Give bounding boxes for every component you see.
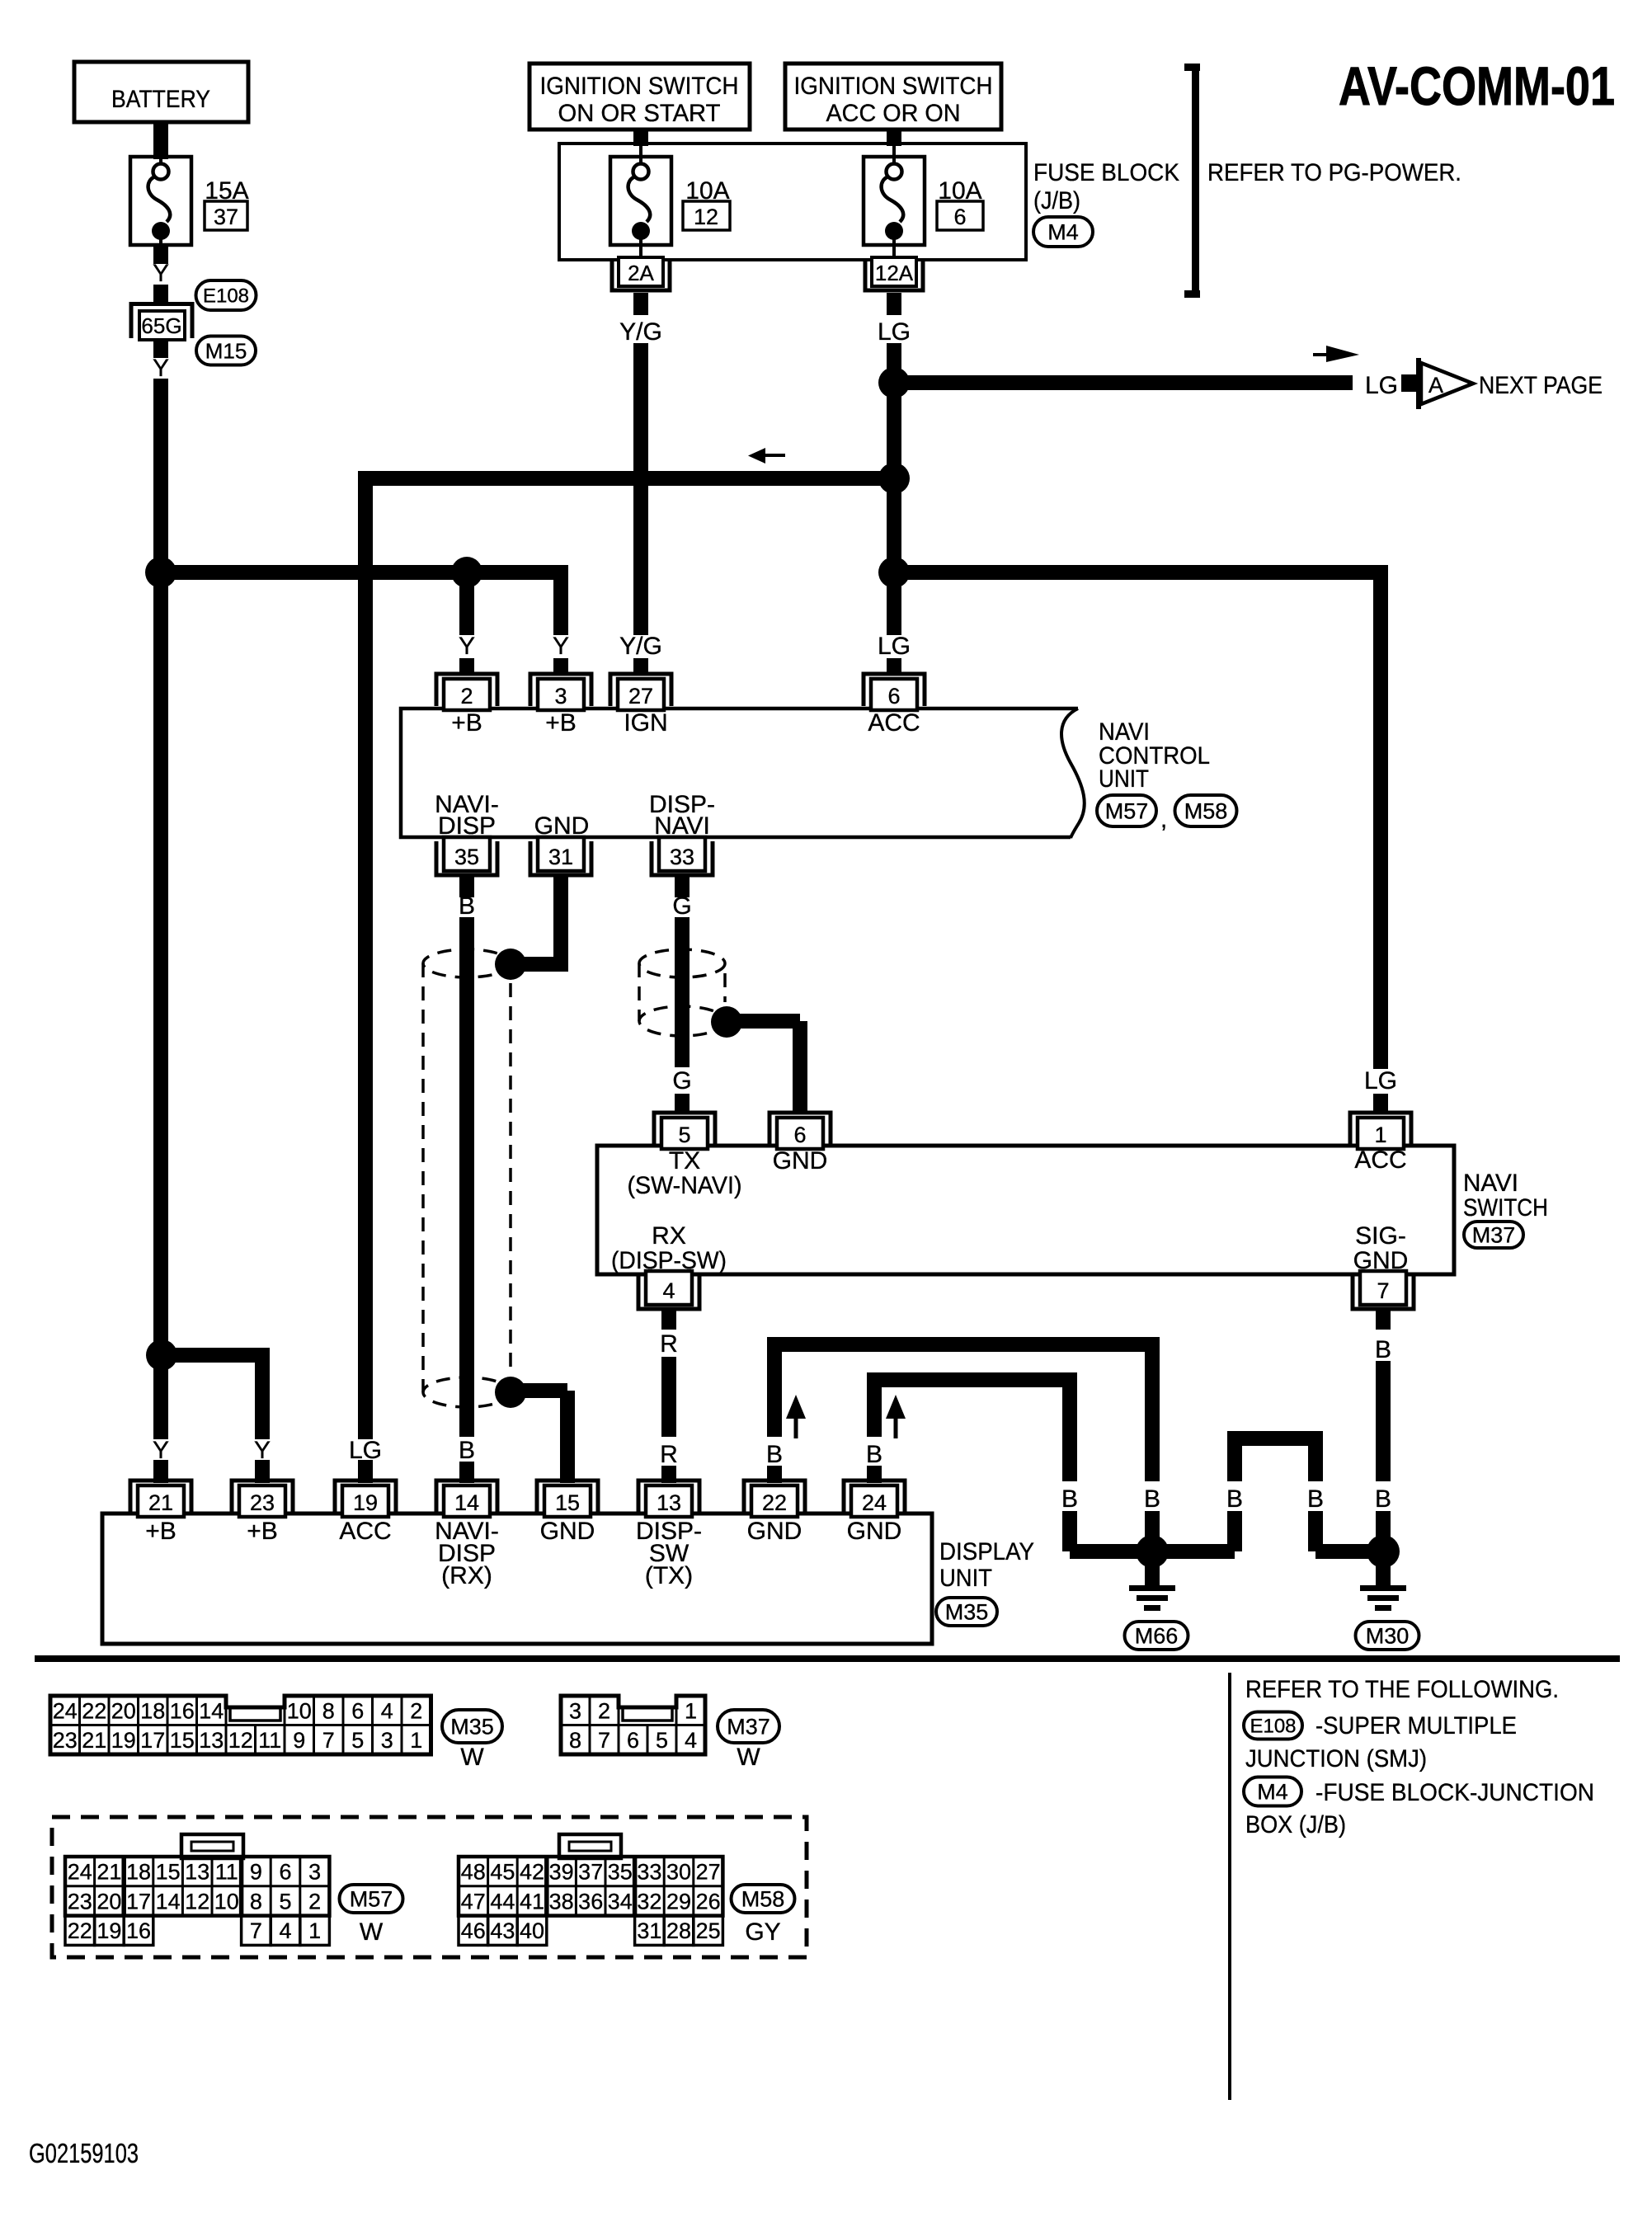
svg-text:11: 11 <box>215 1860 238 1885</box>
svg-text:6: 6 <box>279 1860 291 1885</box>
svg-text:37: 37 <box>578 1860 603 1885</box>
svg-text:3: 3 <box>554 684 567 708</box>
svg-text:-FUSE BLOCK-JUNCTION: -FUSE BLOCK-JUNCTION <box>1315 1779 1594 1806</box>
svg-text:W: W <box>360 1918 384 1946</box>
svg-text:13: 13 <box>199 1728 224 1753</box>
svg-text:DISPLAY: DISPLAY <box>939 1538 1034 1565</box>
svg-text:27: 27 <box>696 1860 721 1885</box>
svg-text:5: 5 <box>678 1123 690 1147</box>
svg-text:E108: E108 <box>1250 1716 1296 1738</box>
svg-text:28: 28 <box>666 1918 691 1943</box>
svg-text:Y: Y <box>153 1437 169 1464</box>
svg-text:3: 3 <box>569 1699 581 1724</box>
svg-text:12A: 12A <box>875 261 914 285</box>
svg-text:6: 6 <box>887 684 900 708</box>
svg-text:2: 2 <box>460 684 473 708</box>
svg-text:4: 4 <box>685 1728 697 1753</box>
svg-text:34: 34 <box>608 1889 633 1914</box>
svg-text:R: R <box>660 1330 678 1358</box>
svg-text:UNIT: UNIT <box>939 1565 992 1592</box>
svg-text:,: , <box>1160 806 1167 833</box>
svg-text:B: B <box>459 1437 475 1464</box>
svg-text:15: 15 <box>170 1728 195 1753</box>
svg-text:46: 46 <box>461 1918 486 1943</box>
svg-text:44: 44 <box>490 1889 515 1914</box>
svg-text:19: 19 <box>111 1728 136 1753</box>
svg-text:7: 7 <box>1377 1278 1389 1303</box>
svg-text:B: B <box>866 1441 882 1468</box>
svg-text:27: 27 <box>628 684 653 708</box>
svg-text:21: 21 <box>96 1860 121 1885</box>
svg-text:+B: +B <box>545 709 577 737</box>
svg-text:IGN: IGN <box>624 709 667 737</box>
svg-text:2: 2 <box>410 1699 422 1724</box>
svg-text:30: 30 <box>666 1860 691 1885</box>
svg-text:12: 12 <box>228 1728 253 1753</box>
svg-text:10: 10 <box>214 1889 239 1914</box>
svg-text:UNIT: UNIT <box>1099 765 1149 793</box>
svg-text:31: 31 <box>637 1918 661 1943</box>
svg-text:3: 3 <box>381 1728 393 1753</box>
svg-text:2A: 2A <box>628 261 654 285</box>
svg-text:39: 39 <box>549 1860 574 1885</box>
svg-text:47: 47 <box>461 1889 486 1914</box>
svg-text:+B: +B <box>451 709 482 737</box>
svg-text:REFER TO THE FOLLOWING.: REFER TO THE FOLLOWING. <box>1245 1676 1559 1703</box>
svg-text:LG: LG <box>349 1437 382 1464</box>
svg-text:B: B <box>1307 1485 1324 1513</box>
svg-text:B: B <box>766 1441 783 1468</box>
svg-text:5: 5 <box>351 1728 364 1753</box>
svg-text:GND: GND <box>747 1518 802 1545</box>
svg-text:M35: M35 <box>450 1715 494 1739</box>
svg-text:LG: LG <box>878 318 911 346</box>
svg-text:3: 3 <box>308 1860 321 1885</box>
svg-text:M57: M57 <box>350 1887 393 1912</box>
svg-text:8: 8 <box>250 1889 262 1914</box>
svg-text:Y: Y <box>153 355 169 382</box>
svg-text:29: 29 <box>666 1889 691 1914</box>
svg-text:26: 26 <box>696 1889 721 1914</box>
svg-text:LG: LG <box>1365 372 1398 399</box>
svg-text:12: 12 <box>694 205 718 229</box>
svg-text:4: 4 <box>381 1699 393 1724</box>
svg-text:M37: M37 <box>727 1715 770 1739</box>
svg-text:M66: M66 <box>1135 1624 1179 1649</box>
svg-text:13: 13 <box>657 1490 681 1515</box>
svg-text:31: 31 <box>548 845 573 869</box>
svg-text:19: 19 <box>353 1490 378 1515</box>
svg-text:18: 18 <box>140 1699 165 1724</box>
svg-text:+B: +B <box>247 1518 278 1545</box>
svg-text:G: G <box>672 892 691 920</box>
svg-text:5: 5 <box>279 1889 291 1914</box>
svg-text:LG: LG <box>1364 1067 1397 1095</box>
svg-text:(J/B): (J/B) <box>1033 187 1080 214</box>
svg-text:41: 41 <box>520 1889 544 1914</box>
svg-text:36: 36 <box>578 1889 603 1914</box>
svg-text:M35: M35 <box>945 1600 989 1625</box>
svg-text:9: 9 <box>250 1860 262 1885</box>
svg-text:ON OR START: ON OR START <box>558 100 721 127</box>
svg-text:M37: M37 <box>1472 1223 1516 1248</box>
svg-text:23: 23 <box>68 1889 92 1914</box>
svg-text:(RX): (RX) <box>441 1562 492 1589</box>
svg-text:14: 14 <box>199 1699 224 1724</box>
svg-text:+B: +B <box>145 1518 176 1545</box>
svg-text:(TX): (TX) <box>645 1562 693 1589</box>
svg-text:22: 22 <box>68 1918 92 1943</box>
svg-text:1: 1 <box>308 1918 321 1943</box>
svg-text:B: B <box>1061 1485 1078 1513</box>
svg-text:NAVI: NAVI <box>1463 1170 1518 1197</box>
svg-text:21: 21 <box>82 1728 106 1753</box>
svg-text:LG: LG <box>878 633 911 660</box>
svg-text:15: 15 <box>156 1860 181 1885</box>
svg-text:BOX (J/B): BOX (J/B) <box>1245 1811 1346 1838</box>
svg-text:6: 6 <box>627 1728 639 1753</box>
svg-text:6: 6 <box>793 1123 806 1147</box>
svg-text:ACC OR ON: ACC OR ON <box>826 100 961 127</box>
svg-text:(SW-NAVI): (SW-NAVI) <box>628 1172 742 1199</box>
svg-text:45: 45 <box>490 1860 515 1885</box>
svg-text:Y: Y <box>553 633 569 660</box>
svg-text:4: 4 <box>279 1918 291 1943</box>
svg-text:B: B <box>459 892 475 920</box>
svg-text:E108: E108 <box>203 285 249 308</box>
svg-text:5: 5 <box>656 1728 668 1753</box>
svg-text:65G: 65G <box>141 313 181 338</box>
svg-text:A: A <box>1428 373 1443 398</box>
svg-text:ACC: ACC <box>1354 1146 1406 1174</box>
svg-text:7: 7 <box>250 1918 262 1943</box>
svg-text:B: B <box>1226 1485 1243 1513</box>
svg-text:W: W <box>460 1744 484 1771</box>
svg-text:4: 4 <box>662 1278 675 1303</box>
svg-text:GND: GND <box>847 1518 902 1545</box>
svg-text:18: 18 <box>126 1860 151 1885</box>
svg-text:24: 24 <box>68 1860 92 1885</box>
svg-text:GY: GY <box>745 1918 780 1946</box>
svg-text:14: 14 <box>156 1889 181 1914</box>
svg-text:W: W <box>737 1744 760 1771</box>
svg-text:2: 2 <box>598 1699 610 1724</box>
svg-text:B: B <box>1144 1485 1160 1513</box>
svg-text:G02159103: G02159103 <box>29 2138 139 2168</box>
svg-text:42: 42 <box>520 1860 544 1885</box>
svg-text:13: 13 <box>185 1860 209 1885</box>
svg-text:M4: M4 <box>1047 220 1079 245</box>
svg-text:35: 35 <box>608 1860 633 1885</box>
svg-text:RX: RX <box>652 1222 686 1250</box>
svg-text:ACC: ACC <box>868 709 920 737</box>
svg-text:11: 11 <box>258 1728 281 1753</box>
svg-text:20: 20 <box>111 1699 136 1724</box>
svg-text:8: 8 <box>322 1699 335 1724</box>
svg-text:SWITCH: SWITCH <box>1463 1194 1548 1222</box>
svg-text:37: 37 <box>214 205 238 229</box>
svg-text:TX: TX <box>669 1147 700 1175</box>
svg-text:M58: M58 <box>741 1887 785 1912</box>
svg-text:33: 33 <box>670 845 694 869</box>
svg-text:IGNITION SWITCH: IGNITION SWITCH <box>540 73 739 100</box>
svg-text:8: 8 <box>569 1728 581 1753</box>
svg-text:2: 2 <box>308 1889 321 1914</box>
svg-text:22: 22 <box>82 1699 106 1724</box>
svg-text:R: R <box>660 1441 678 1468</box>
svg-text:Y: Y <box>153 260 169 287</box>
svg-text:M4: M4 <box>1257 1780 1288 1805</box>
svg-text:33: 33 <box>637 1860 661 1885</box>
svg-text:23: 23 <box>250 1490 275 1515</box>
svg-text:20: 20 <box>96 1889 121 1914</box>
svg-text:22: 22 <box>762 1490 787 1515</box>
svg-text:GND: GND <box>773 1147 828 1175</box>
svg-text:19: 19 <box>96 1918 121 1943</box>
svg-text:9: 9 <box>293 1728 305 1753</box>
svg-text:35: 35 <box>454 845 479 869</box>
svg-text:38: 38 <box>549 1889 574 1914</box>
svg-text:40: 40 <box>520 1918 544 1943</box>
svg-text:7: 7 <box>322 1728 335 1753</box>
svg-text:FUSE BLOCK: FUSE BLOCK <box>1033 159 1179 186</box>
svg-text:M15: M15 <box>205 338 247 363</box>
svg-text:1: 1 <box>1374 1123 1386 1147</box>
svg-text:B: B <box>1375 1485 1391 1513</box>
svg-text:6: 6 <box>953 205 966 229</box>
svg-text:B: B <box>1375 1336 1391 1363</box>
svg-text:Y/G: Y/G <box>619 318 662 346</box>
svg-text:17: 17 <box>126 1889 151 1914</box>
svg-text:12: 12 <box>185 1889 209 1914</box>
svg-text:NEXT PAGE: NEXT PAGE <box>1479 372 1603 399</box>
svg-text:48: 48 <box>461 1860 486 1885</box>
svg-text:16: 16 <box>170 1699 195 1724</box>
svg-text:BATTERY: BATTERY <box>111 86 210 113</box>
svg-text:ACC: ACC <box>339 1518 391 1545</box>
svg-text:Y: Y <box>459 633 475 660</box>
svg-text:REFER TO PG-POWER.: REFER TO PG-POWER. <box>1207 159 1461 186</box>
svg-text:SIG-: SIG- <box>1355 1222 1406 1250</box>
svg-text:-SUPER MULTIPLE: -SUPER MULTIPLE <box>1315 1712 1517 1739</box>
svg-text:M58: M58 <box>1184 799 1228 824</box>
svg-text:10: 10 <box>287 1699 312 1724</box>
svg-text:AV-COMM-01: AV-COMM-01 <box>1339 55 1615 116</box>
svg-text:1: 1 <box>410 1728 422 1753</box>
svg-text:15: 15 <box>555 1490 580 1515</box>
svg-text:IGNITION SWITCH: IGNITION SWITCH <box>794 73 993 100</box>
svg-text:23: 23 <box>53 1728 78 1753</box>
svg-text:17: 17 <box>140 1728 165 1753</box>
svg-text:32: 32 <box>637 1889 661 1914</box>
svg-text:GND: GND <box>540 1518 595 1545</box>
svg-text:24: 24 <box>53 1699 78 1724</box>
svg-text:Y/G: Y/G <box>619 633 662 660</box>
svg-text:14: 14 <box>454 1490 479 1515</box>
svg-text:M30: M30 <box>1366 1624 1410 1649</box>
svg-text:24: 24 <box>862 1490 887 1515</box>
svg-text:G: G <box>672 1067 691 1095</box>
svg-text:JUNCTION (SMJ): JUNCTION (SMJ) <box>1245 1745 1427 1772</box>
svg-text:25: 25 <box>696 1918 721 1943</box>
svg-text:1: 1 <box>685 1699 697 1724</box>
svg-text:M57: M57 <box>1105 799 1149 824</box>
svg-text:6: 6 <box>351 1699 364 1724</box>
svg-text:43: 43 <box>490 1918 515 1943</box>
svg-text:16: 16 <box>126 1918 151 1943</box>
svg-text:7: 7 <box>598 1728 610 1753</box>
svg-text:21: 21 <box>148 1490 173 1515</box>
